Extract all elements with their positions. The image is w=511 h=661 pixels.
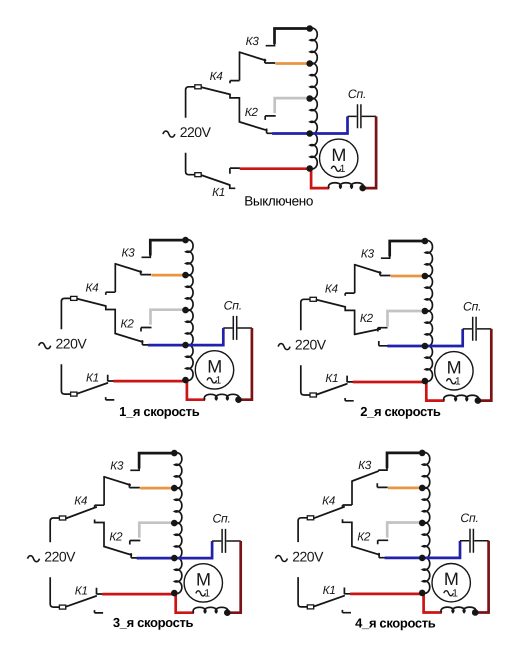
capacitor Cp leads (Выключено) bbox=[348, 115, 377, 117]
switch K2 blade (1-я скорость) bbox=[115, 334, 142, 342]
svg-text:1: 1 bbox=[455, 375, 461, 387]
svg-text:M: M bbox=[207, 356, 222, 376]
capacitor Cp leads (4-я скорость) bbox=[460, 540, 489, 542]
switch K4: lead, contact box, blade (2-я скорость) bbox=[301, 299, 310, 330]
switch K3 blade and pivot (Выключено) bbox=[239, 52, 241, 80]
contact: K2 upper fixed contact (1-я скорость) bbox=[141, 328, 152, 332]
wire orange: tap 1 to K3 lower contact (4-я скорость) bbox=[388, 487, 423, 490]
AC source label ~220V (3-я скорость) bbox=[28, 556, 40, 562]
wire gray: tap 2 to K2 upper contact (open) (Выключено) bbox=[275, 98, 310, 113]
contact: K1 fixed contact (red wire) (3-я скорость) bbox=[97, 588, 104, 595]
svg-text:Сп.: Сп. bbox=[460, 511, 478, 525]
svg-text:M: M bbox=[196, 569, 211, 589]
switch K1: lead, contact box, blade (closed) (4-я скорость) bbox=[298, 577, 307, 607]
svg-text:1_я скорость: 1_я скорость bbox=[119, 404, 200, 419]
contact: K3 lower fixed contact (3-я скорость) bbox=[129, 483, 139, 487]
capacitor Cp plates (Выключено) bbox=[358, 104, 361, 128]
wire red: bottom tap to start winding (Выключено) bbox=[311, 169, 329, 188]
svg-text:К2: К2 bbox=[357, 529, 371, 543]
capacitor Cp leads (3-я скорость) bbox=[212, 540, 241, 542]
svg-text:К3: К3 bbox=[121, 245, 135, 259]
node: coil to dark red junction (4-я скорость) bbox=[472, 609, 479, 616]
contact: K1 fixed contact (red wire) (4-я скорость) bbox=[344, 588, 351, 595]
wire orange: tap 1 to K3 lower contact (3-я скорость) bbox=[140, 487, 175, 490]
svg-text:К3: К3 bbox=[110, 458, 124, 472]
svg-text:Сп.: Сп. bbox=[463, 299, 481, 313]
contact: K3 lower fixed contact (4-я скорость) bbox=[377, 483, 387, 487]
contact: K3 lower fixed contact (Выключено) bbox=[265, 59, 275, 63]
svg-text:К4: К4 bbox=[322, 494, 336, 508]
contact: K4 upper fixed contact (3-я скорость) bbox=[95, 505, 104, 508]
svg-text:К2: К2 bbox=[121, 317, 135, 331]
motor start winding coil (2-я скорость) bbox=[444, 395, 479, 400]
svg-text:4_я скорость: 4_я скорость bbox=[355, 615, 436, 630]
svg-text:M: M bbox=[444, 569, 459, 589]
contact: K2 upper fixed contact (Выключено) bbox=[265, 116, 276, 120]
svg-text:1: 1 bbox=[340, 163, 346, 175]
contact: K3 upper fixed contact (1-я скорость) bbox=[142, 255, 151, 258]
svg-text:3_я скорость: 3_я скорость bbox=[113, 615, 194, 630]
switch K4: lead, contact box, blade (Выключено) bbox=[186, 87, 195, 118]
contact: K2 lower fixed contact (blue) (4-я скорость) bbox=[379, 553, 385, 558]
svg-text:К1: К1 bbox=[86, 370, 99, 384]
wire black: top tap to K3 upper contact (2-я скорость) bbox=[390, 241, 426, 256]
contact: K1 open rest hook (2-я скорость) bbox=[345, 398, 354, 401]
wire red: K1 to bottom tap (4-я скорость) bbox=[350, 593, 423, 596]
wire red: K1 to bottom tap (3-я скорость) bbox=[102, 593, 175, 596]
contact: K1 open rest hook (1-я скорость) bbox=[106, 397, 115, 400]
wire blue: K2 contact through tap 3 to capacitor junction (4-я скорость) bbox=[385, 541, 460, 558]
node dots: winding taps (1-я скорость) bbox=[182, 237, 189, 244]
autotransformer winding (2-я скорость) bbox=[425, 241, 432, 382]
svg-text:220V: 220V bbox=[44, 549, 76, 565]
capacitor Cp leads (1-я скорость) bbox=[223, 327, 252, 329]
node dots: winding taps (2-я скорость) bbox=[422, 238, 429, 245]
switch K1: lead, contact box, blade (closed) (1-я скорость) bbox=[61, 364, 70, 394]
AC source label ~220V (4-я скорость) bbox=[275, 556, 287, 562]
contact: K1 fixed contact (red wire) (Выключено) bbox=[230, 168, 240, 174]
contact: K4 upper fixed contact (2-я скорость) bbox=[345, 293, 354, 296]
svg-text:К4: К4 bbox=[85, 281, 99, 295]
wire red: bottom tap to start winding (2-я скорость) bbox=[426, 382, 444, 401]
wire gray: tap 2 to K2 upper contact (closed) (2-я скорость) bbox=[388, 311, 426, 327]
contact: K1 fixed contact (red wire) (1-я скорость) bbox=[108, 375, 115, 382]
wire red: K1 to bottom tap (2-я скорость) bbox=[353, 381, 426, 384]
svg-text:К2: К2 bbox=[360, 311, 374, 325]
autotransformer winding (4-я скорость) bbox=[423, 452, 430, 593]
capacitor Cp plates (2-я скорость) bbox=[473, 317, 476, 341]
autotransformer winding (Выключено) bbox=[310, 28, 317, 169]
switch K1: lead, contact box, blade (closed) (2-я скорость) bbox=[301, 365, 310, 395]
wire orange: tap 1 to K3 lower contact (1-я скорость) bbox=[151, 274, 186, 277]
capacitor Cp plates (4-я скорость) bbox=[470, 529, 473, 553]
contact: K3 upper fixed contact (2-я скорость) bbox=[381, 256, 390, 259]
motor start winding coil (3-я скорость) bbox=[193, 607, 228, 612]
svg-text:К2: К2 bbox=[109, 530, 123, 544]
contact: K3 upper fixed contact (Выключено) bbox=[266, 43, 275, 46]
node: coil to dark red junction (2-я скорость) bbox=[475, 397, 482, 404]
svg-text:M: M bbox=[447, 357, 462, 377]
contact: K1 open rest hook (4-я скорость) bbox=[342, 610, 351, 613]
contact: K4 upper fixed contact (4-я скорость) bbox=[343, 505, 352, 508]
svg-text:Сп.: Сп. bbox=[348, 87, 366, 101]
wire dark red: capacitor to start winding (2-я скорость) bbox=[478, 329, 491, 401]
switch K2 blade (4-я скорость) bbox=[352, 546, 379, 554]
svg-text:1: 1 bbox=[215, 375, 221, 387]
node dots: winding taps (4-я скорость) bbox=[419, 450, 426, 457]
wire dark red: capacitor to start winding (3-я скорость) bbox=[227, 541, 240, 613]
contact: K3 lower fixed contact (1-я скорость) bbox=[141, 270, 151, 274]
wire black: top tap to K3 upper contact (1-я скорость) bbox=[150, 240, 186, 255]
autotransformer winding (3-я скорость) bbox=[175, 453, 182, 594]
svg-text:К2: К2 bbox=[245, 105, 259, 119]
motor phase mark ~1 (Выключено) bbox=[331, 166, 341, 171]
switch K3 blade and pivot (2-я скорость) bbox=[354, 265, 356, 293]
svg-text:M: M bbox=[331, 145, 346, 165]
switch K1: lead, contact box, blade (open) (Выключено) bbox=[186, 153, 195, 175]
motor M circle (3-я скорость) bbox=[184, 564, 222, 602]
wire blue: K2 contact through tap 3 to capacitor junction (2-я скорость) bbox=[387, 329, 462, 346]
svg-text:220V: 220V bbox=[295, 337, 327, 353]
svg-text:К1: К1 bbox=[75, 583, 88, 597]
contact: K2 lower fixed contact (blue) (1-я скорость) bbox=[142, 340, 148, 345]
contact: K2 lower fixed contact (blue) (2-я скорость) bbox=[379, 341, 388, 346]
wire gray: tap 2 to K2 upper contact (open) (3-я скорость) bbox=[139, 523, 174, 538]
contact: K2 lower fixed contact (blue) (3-я скорость) bbox=[131, 553, 137, 558]
contact: K1 fixed contact (red wire) (2-я скорость) bbox=[347, 376, 354, 383]
wire black: top tap to K3 upper contact (Выключено) bbox=[275, 29, 311, 44]
contact: K2 upper fixed contact (3-я скорость) bbox=[130, 541, 141, 545]
switch K1: lead, contact box, blade (closed) (3-я скорость) bbox=[50, 577, 59, 607]
contact: K4 lower fixed contact and link to K2 pivot (3-я скорость) bbox=[95, 520, 104, 547]
wire blue: K2 contact through tap 3 to capacitor junction (1-я скорость) bbox=[148, 328, 223, 345]
motor phase mark ~1 (1-я скорость) bbox=[207, 378, 217, 383]
node: coil to dark red junction (1-я скорость) bbox=[235, 396, 242, 403]
wire dark red: capacitor to start winding (Выключено) bbox=[363, 116, 376, 188]
motor M circle (4-я скорость) bbox=[432, 564, 470, 602]
svg-text:1: 1 bbox=[204, 588, 210, 600]
svg-text:К4: К4 bbox=[74, 494, 88, 508]
wire dark red: capacitor to start winding (4-я скорость) bbox=[475, 541, 488, 613]
wire orange: tap 1 to K3 lower contact (2-я скорость) bbox=[391, 275, 426, 278]
switch K2 blade (3-я скорость) bbox=[104, 547, 131, 555]
contact: K2 lower fixed contact (blue) (Выключено) bbox=[267, 129, 273, 134]
motor M circle (Выключено) bbox=[320, 139, 358, 177]
node dots: winding taps (3-я скорость) bbox=[171, 450, 178, 457]
wire red: K1 contact to bottom tap (Выключено) bbox=[240, 167, 311, 170]
motor start winding coil (4-я скорость) bbox=[441, 607, 476, 612]
AC source label ~220V (2-я скорость) bbox=[278, 344, 290, 350]
switch K3 blade and pivot (3-я скорость) bbox=[103, 477, 105, 505]
wire black: top tap to K3 upper contact (3-я скорость) bbox=[139, 453, 175, 468]
wire gray: tap 2 to K2 upper contact (open) (1-я скорость) bbox=[151, 310, 186, 325]
contact: K3 upper fixed contact (4-я скорость) bbox=[378, 468, 387, 471]
node dots: winding taps (Выключено) bbox=[306, 25, 313, 32]
contact: K1 open rest hook (3-я скорость) bbox=[95, 610, 104, 613]
wire red: K1 to bottom tap (1-я скорость) bbox=[113, 380, 186, 383]
motor start winding coil (1-я скорость) bbox=[204, 394, 239, 399]
node: coil to dark red junction (3-я скорость) bbox=[224, 609, 231, 616]
contact: K2 upper fixed contact (2-я скорость) bbox=[378, 328, 388, 332]
svg-text:К4: К4 bbox=[325, 282, 339, 296]
autotransformer winding (1-я скорость) bbox=[186, 240, 193, 381]
contact: K4 lower fixed contact and link to K2 pivot (Выключено) bbox=[230, 95, 239, 122]
contact: K2 upper fixed contact (4-я скорость) bbox=[378, 540, 389, 544]
svg-text:К3: К3 bbox=[358, 458, 372, 472]
svg-text:1: 1 bbox=[452, 587, 458, 599]
capacitor Cp leads (2-я скорость) bbox=[463, 328, 492, 330]
switch K4: lead, contact box, blade (1-я скорость) bbox=[61, 298, 70, 329]
svg-text:Выключено: Выключено bbox=[244, 194, 313, 209]
wire red: bottom tap to start winding (1-я скорость) bbox=[187, 381, 205, 400]
svg-text:220V: 220V bbox=[292, 549, 324, 565]
svg-text:К1: К1 bbox=[325, 371, 338, 385]
svg-text:220V: 220V bbox=[180, 124, 212, 140]
motor phase mark ~1 (3-я скорость) bbox=[196, 591, 206, 596]
svg-text:К1: К1 bbox=[212, 185, 225, 199]
wire red: bottom tap to start winding (3-я скорость) bbox=[176, 594, 194, 613]
motor phase mark ~1 (4-я скорость) bbox=[444, 591, 454, 596]
wire gray: tap 2 to K2 upper contact (open) (4-я скорость) bbox=[387, 523, 422, 538]
svg-text:К3: К3 bbox=[246, 34, 260, 48]
svg-text:К4: К4 bbox=[210, 69, 224, 83]
wire red: bottom tap to start winding (4-я скорость) bbox=[424, 593, 442, 612]
svg-text:220V: 220V bbox=[56, 336, 88, 352]
svg-text:Сп.: Сп. bbox=[224, 298, 242, 312]
wire blue: K2 contact through tap 3 to capacitor junction (3-я скорость) bbox=[137, 541, 212, 558]
svg-text:К3: К3 bbox=[361, 246, 375, 260]
motor start winding coil (Выключено) bbox=[328, 183, 363, 188]
AC source label ~220V (Выключено) bbox=[163, 131, 175, 137]
motor phase mark ~1 (2-я скорость) bbox=[447, 379, 457, 384]
svg-text:Сп.: Сп. bbox=[212, 511, 230, 525]
svg-text:2_я скорость: 2_я скорость bbox=[360, 404, 441, 419]
contact: K4 lower fixed contact and link to K2 pivot (2-я скорость) bbox=[345, 307, 354, 334]
wire blue: K2 contact through tap 3 to capacitor junction (Выключено) bbox=[272, 117, 347, 134]
contact: K4 upper fixed contact (Выключено) bbox=[230, 81, 239, 84]
contact: K3 lower fixed contact (2-я скорость) bbox=[380, 271, 390, 275]
switch K3 blade and pivot (4-я скорость) bbox=[351, 481, 353, 505]
capacitor Cp plates (3-я скорость) bbox=[222, 529, 225, 553]
switch K4: lead, contact box, blade (4-я скорость) bbox=[298, 518, 307, 542]
wire orange: tap 1 to K3 lower contact (Выключено) bbox=[276, 62, 311, 65]
contact: K4 lower fixed contact and link to K2 pivot (1-я скорость) bbox=[106, 307, 115, 334]
switch K4: lead, contact box, blade (3-я скорость) bbox=[50, 518, 59, 542]
contact: K4 upper fixed contact (1-я скорость) bbox=[106, 292, 115, 295]
node: coil to dark red junction (Выключено) bbox=[359, 185, 366, 192]
contact: K4 lower fixed contact and link to K2 pivot (4-я скорость) bbox=[343, 519, 352, 546]
capacitor Cp plates (1-я скорость) bbox=[233, 316, 236, 340]
switch K2 blade (2-я скорость) bbox=[355, 329, 381, 334]
wire dark red: capacitor to start winding (1-я скорость) bbox=[239, 328, 252, 400]
svg-text:К1: К1 bbox=[323, 583, 336, 597]
motor M circle (2-я скорость) bbox=[435, 352, 473, 390]
motor M circle (1-я скорость) bbox=[195, 351, 233, 389]
contact: K3 upper fixed contact (3-я скорость) bbox=[130, 468, 139, 471]
switch K3 blade and pivot (1-я скорость) bbox=[114, 264, 116, 292]
AC source label ~220V (1-я скорость) bbox=[39, 343, 51, 349]
wire black: top tap to K3 upper contact (4-я скорость) bbox=[387, 453, 423, 468]
switch K2 blade (Выключено) bbox=[239, 122, 266, 130]
